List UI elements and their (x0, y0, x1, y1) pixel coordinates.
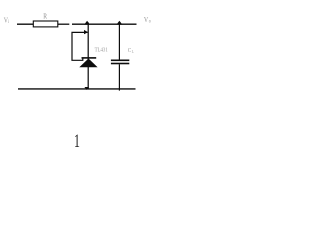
wire: TL431 reference feedback loop (72, 32, 87, 60)
TL431 cathode bar (82, 57, 97, 59)
capacitor CL top plate (111, 60, 129, 62)
node: arrowhead where reference loop meets cathode line (84, 30, 88, 34)
node: arrowhead at TL431 anode junction with ground rail (84, 87, 89, 90)
svg-text:V: V (144, 16, 148, 24)
label CL (128, 48, 135, 55)
label Vi (input voltage) (4, 17, 10, 25)
wire: top rail left segment (Vi to resistor) (17, 23, 34, 25)
svg-text:R: R (43, 13, 47, 21)
capacitor CL top lead (118, 23, 120, 60)
wire: top rail, gap to Vo end (72, 23, 137, 25)
node K: arrowhead at TL431 cathode junction with top rail (84, 21, 90, 25)
resistor R (box) (33, 21, 58, 27)
wire: TL431 cathode/anode vertical (87, 23, 89, 90)
svg-text:C: C (128, 48, 132, 55)
wire: top rail, resistor to gap (58, 23, 70, 25)
svg-text:TL431: TL431 (95, 47, 108, 54)
TL431 anode triangle (79, 59, 97, 68)
label Vo (output voltage) (144, 16, 152, 24)
capacitor CL bottom plate (111, 63, 129, 65)
capacitor CL bottom lead (118, 64, 120, 90)
svg-text:1: 1 (74, 131, 80, 151)
node: arrowhead at capacitor junction with top rail (116, 21, 122, 25)
wire: ground rail (18, 88, 136, 90)
